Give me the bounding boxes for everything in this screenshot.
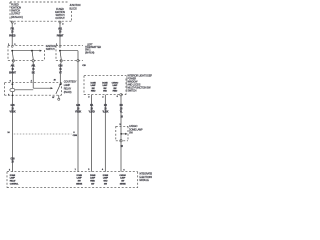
switch blade 2 xyxy=(32,51,33,60)
svg-text:SW: SW xyxy=(104,183,107,185)
ignition switch label xyxy=(46,45,56,51)
svg-text:YL/RD: YL/RD xyxy=(89,111,95,114)
module label xyxy=(139,172,153,182)
svg-text:JUNCTION: JUNCTION xyxy=(70,5,81,7)
key-in switch box xyxy=(56,46,83,61)
key-in switch label xyxy=(85,44,101,55)
svg-text:OUTPUT: OUTPUT xyxy=(55,17,65,20)
svg-text:(IN-RD): (IN-RD) xyxy=(64,91,72,94)
svg-text:(IN-RUN): (IN-RUN) xyxy=(85,51,95,54)
wire to relay contact xyxy=(59,62,62,85)
entry connector ignition switch xyxy=(11,46,13,48)
svg-text:MODULE: MODULE xyxy=(139,180,149,182)
wire A21 (right, from J/B to key switch) xyxy=(59,23,61,45)
svg-text:SW: SW xyxy=(78,181,81,183)
svg-text:YL/BK: YL/BK xyxy=(102,111,108,114)
svg-text:DOME: DOME xyxy=(103,175,109,177)
svg-text:(RUN-ACC): (RUN-ACC) xyxy=(11,16,23,19)
wire G26 labels lower xyxy=(11,157,16,163)
svg-text:ELECTRONIC: ELECTRONIC xyxy=(139,177,152,179)
dimmer switch label xyxy=(126,75,128,92)
svg-text:VT/BK: VT/BK xyxy=(75,111,81,114)
svg-text:DOME: DOME xyxy=(90,175,96,177)
wire to relay trigger xyxy=(32,62,34,88)
relay actuator arrow xyxy=(33,87,51,89)
arrow (switch actuator) xyxy=(40,50,42,52)
node ignition feed bus xyxy=(12,50,40,52)
svg-text:SENSE: SENSE xyxy=(120,183,127,185)
connector at J/B second output xyxy=(59,21,61,23)
courtesy lamp relay box xyxy=(5,83,62,96)
ignition switch box xyxy=(8,46,45,61)
svg-text:SW: SW xyxy=(91,183,94,185)
integrated electronic module box xyxy=(7,172,138,188)
node key-in feed xyxy=(60,50,78,52)
entry connector key-in switch xyxy=(59,46,61,48)
module pin texts xyxy=(10,175,19,185)
svg-text:CONTROL: CONTROL xyxy=(10,183,19,185)
cargo lamp switch internals xyxy=(120,126,122,139)
relay label xyxy=(64,81,77,94)
connector at J/B pin 7 xyxy=(11,21,13,23)
svg-text:FEED: FEED xyxy=(90,181,95,183)
wire R3 lower xyxy=(120,142,122,172)
relay coil xyxy=(12,83,14,85)
wire R1 (dome lamp sw feed) xyxy=(91,95,93,172)
svg-text:PK/WT: PK/WT xyxy=(57,34,64,37)
connector at cargo sw output xyxy=(120,94,122,96)
body divider dashed line xyxy=(14,133,72,135)
svg-text:BK/WT: BK/WT xyxy=(9,72,16,75)
svg-text:RELAY: RELAY xyxy=(10,180,16,183)
wire drop to pin xyxy=(77,51,79,60)
wire R3 (to cargo lamp switch) xyxy=(120,96,122,126)
cargo lamp switch label xyxy=(129,125,143,135)
fuse text (middle) xyxy=(55,8,65,20)
wire B2 (key-in switch to module, long) xyxy=(77,62,79,172)
relay contact blade xyxy=(59,84,61,86)
junction block box (top) xyxy=(10,2,72,21)
svg-text:PK/DB: PK/DB xyxy=(9,34,16,37)
dimmer switch pin texts xyxy=(90,83,96,93)
switch blade 1 xyxy=(12,51,13,60)
svg-text:CARGO: CARGO xyxy=(119,174,126,177)
svg-text:CARGO: CARGO xyxy=(112,82,119,85)
svg-text:SWITCH: SWITCH xyxy=(46,48,55,51)
wire to relay coil xyxy=(11,62,14,83)
svg-text:SWITCH: SWITCH xyxy=(127,90,136,93)
svg-text:INTEGRATED: INTEGRATED xyxy=(139,172,152,175)
wire R2 (dome lamp sw gnd) xyxy=(104,95,106,172)
svg-text:VT/BK: VT/BK xyxy=(9,111,15,114)
svg-text:BK: BK xyxy=(32,72,35,75)
svg-text:DOME: DOME xyxy=(76,175,82,177)
svg-text:BLOCK: BLOCK xyxy=(70,9,78,11)
svg-text:SENSE: SENSE xyxy=(76,183,83,185)
interior lights dimmer switch box xyxy=(84,76,126,95)
junction block label xyxy=(70,5,81,11)
svg-text:SW: SW xyxy=(121,181,124,183)
relay coil ground return wire xyxy=(11,92,13,96)
cargo lamp switch box xyxy=(116,126,128,141)
svg-text:DOME: DOME xyxy=(10,175,16,177)
fused ignition switch output text (left) xyxy=(11,4,23,19)
wire F32 (left, from J/B to ignition switch) xyxy=(11,23,13,45)
switch blade 3 xyxy=(60,51,61,60)
